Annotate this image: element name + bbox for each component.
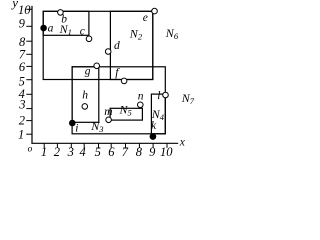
svg-text:h: h (82, 89, 88, 101)
svg-text:x: x (179, 137, 186, 149)
svg-text:7: 7 (122, 145, 129, 159)
svg-text:o: o (28, 144, 33, 154)
svg-text:y: y (10, 0, 18, 10)
svg-text:k: k (151, 120, 157, 132)
svg-text:8: 8 (136, 145, 143, 159)
svg-text:1: 1 (18, 128, 24, 142)
svg-text:a: a (48, 23, 54, 35)
svg-text:9: 9 (19, 17, 26, 31)
svg-text:d: d (114, 40, 120, 52)
svg-text:4: 4 (79, 145, 85, 159)
svg-text:3: 3 (67, 145, 74, 159)
svg-text:9: 9 (149, 145, 156, 159)
svg-text:c: c (80, 26, 85, 38)
svg-text:n: n (138, 90, 144, 102)
svg-text:5: 5 (95, 145, 101, 159)
svg-text:2: 2 (54, 145, 60, 159)
svg-text:e: e (143, 12, 148, 24)
svg-text:6: 6 (19, 60, 26, 74)
svg-text:3: 3 (18, 98, 25, 112)
svg-text:g: g (85, 65, 91, 77)
svg-text:m: m (104, 106, 112, 118)
svg-text:6: 6 (108, 145, 115, 159)
svg-text:i: i (75, 122, 78, 134)
svg-text:10: 10 (160, 145, 173, 159)
svg-text:10: 10 (18, 3, 31, 17)
svg-text:2: 2 (19, 114, 25, 128)
svg-text:1: 1 (41, 145, 47, 159)
svg-text:l: l (157, 90, 160, 102)
